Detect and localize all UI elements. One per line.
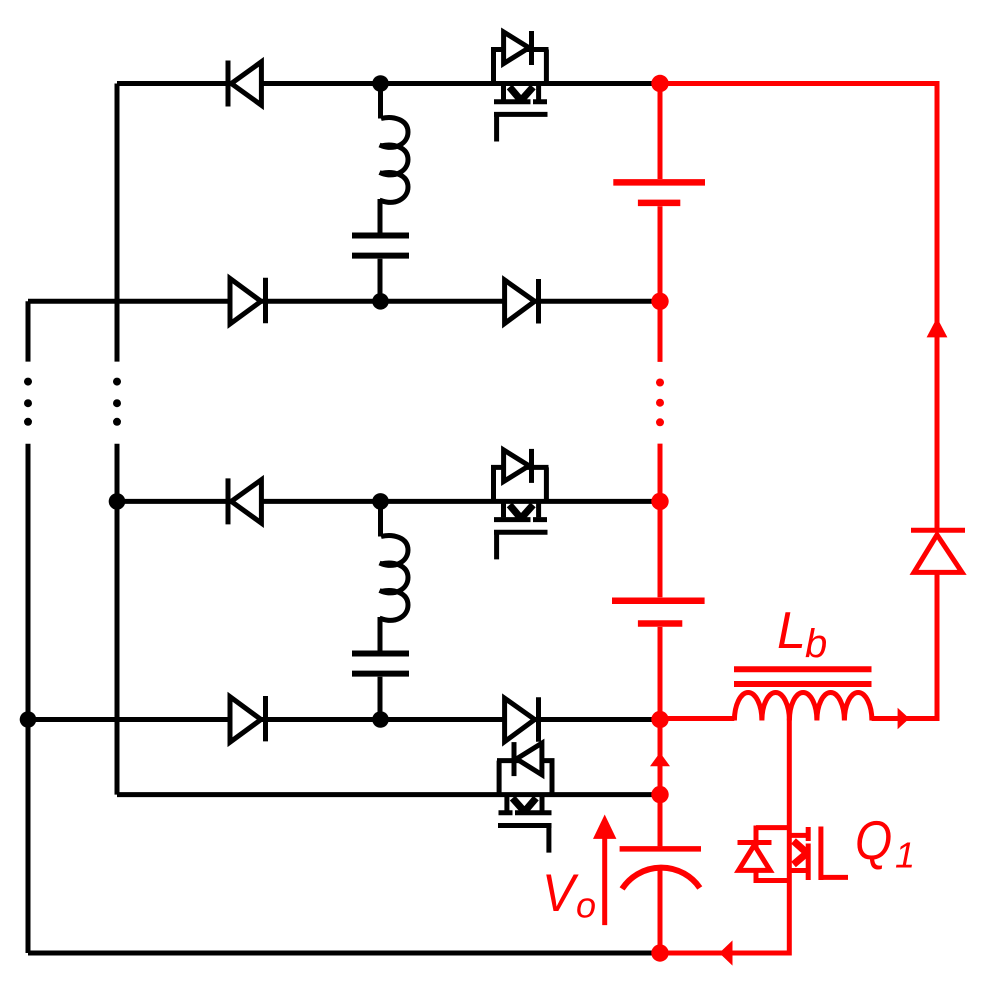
svg-text:b: b (805, 622, 827, 666)
svg-text:o: o (576, 885, 596, 926)
svg-text:L: L (777, 602, 806, 660)
svg-text:Q: Q (855, 809, 892, 871)
svg-text:V: V (542, 863, 580, 922)
svg-text:1: 1 (895, 835, 915, 876)
